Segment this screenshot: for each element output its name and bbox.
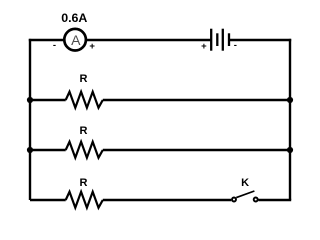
svg-text:-: -	[53, 40, 56, 51]
svg-text:-: -	[234, 40, 237, 51]
wire: row4 resistor to switch	[103, 199, 232, 201]
battery BT1 plate short right	[228, 33, 230, 46]
ammeter U1 circle	[64, 29, 86, 51]
node junction dot right row3	[287, 147, 293, 153]
resistor R1 zigzag	[66, 92, 103, 108]
svg-text:R: R	[80, 125, 88, 137]
svg-text:0.6A: 0.6A	[61, 11, 87, 25]
switch K lever arm	[236, 191, 254, 198]
switch K right contact circle	[254, 198, 258, 202]
battery BT1 plate long left	[210, 29, 212, 51]
resistor R3 zigzag	[66, 192, 103, 208]
svg-text:R: R	[80, 73, 88, 85]
svg-text:R: R	[80, 177, 88, 189]
wire: row3 right segment	[103, 149, 290, 151]
node junction dot left row2	[27, 97, 33, 103]
node junction dot right row2	[287, 97, 293, 103]
resistor R2 zigzag	[66, 142, 103, 158]
switch K left contact circle	[232, 198, 236, 202]
wire: row2 left segment	[30, 99, 66, 101]
wire: row3 left segment	[30, 149, 66, 151]
wire: battery to top-right corner	[229, 39, 291, 41]
wire: top-left to ammeter	[29, 39, 63, 41]
battery BT1 plate long right	[222, 29, 224, 51]
wire: ammeter to battery	[87, 39, 211, 41]
node junction dot left row3	[27, 147, 33, 153]
svg-text:+: +	[201, 41, 207, 52]
svg-text:+: +	[89, 41, 95, 52]
wire: switch to bottom-right corner	[258, 199, 291, 201]
svg-text:K: K	[241, 177, 249, 189]
battery BT1 plate short left	[216, 33, 218, 46]
wire: row4 left segment	[30, 199, 66, 201]
wire: right vertical bus	[289, 39, 291, 200]
wire: left vertical bus	[29, 39, 31, 200]
svg-text:A: A	[71, 32, 81, 48]
wire: row2 right segment	[103, 99, 290, 101]
